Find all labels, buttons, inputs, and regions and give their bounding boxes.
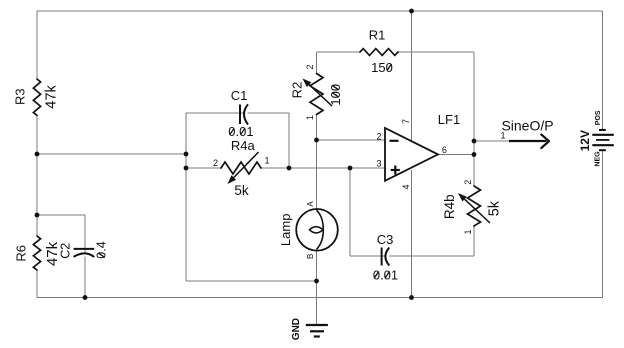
wire C1 box left: [185, 113, 187, 281]
wire R4a right to pin3: [261, 167, 385, 169]
svg-text:A: A: [306, 201, 315, 207]
node inverting: [314, 138, 319, 143]
pin 4 op-amp: [401, 184, 411, 189]
svg-text:POS: POS: [595, 110, 602, 125]
svg-text:4: 4: [401, 184, 411, 189]
value 5k: [487, 200, 503, 216]
label R4a: [231, 138, 256, 153]
node R3-mid: [35, 152, 40, 157]
svg-text:R3: R3: [13, 88, 28, 105]
pin 1 R4a: [264, 156, 269, 166]
wire C1 box right: [288, 113, 290, 168]
label C1: [231, 88, 248, 103]
lamp: [296, 209, 338, 251]
svg-text:6: 6: [442, 145, 447, 155]
wire C1 box top right: [248, 112, 290, 114]
wire gnd drop: [316, 281, 318, 325]
pin B lamp: [306, 254, 315, 259]
arrow R2: [309, 85, 332, 106]
capacitor C1: [239, 105, 241, 125]
battery 12V: [599, 129, 606, 131]
pin 1 output: [500, 131, 505, 141]
svg-text:C2: C2: [59, 243, 73, 259]
wire C1 box top left: [186, 112, 244, 114]
label NEG: [594, 151, 601, 167]
svg-text:2: 2: [305, 64, 315, 69]
wire feedback down: [473, 52, 475, 140]
resistor R6: [33, 236, 40, 270]
wire lamp upper: [316, 140, 318, 210]
node mid-left box: [184, 152, 189, 157]
svg-text:5k: 5k: [234, 183, 249, 198]
svg-text:2: 2: [463, 180, 473, 185]
label R2: [290, 82, 305, 99]
label R4b: [442, 194, 457, 219]
wire left rail middle: [36, 116, 38, 237]
op-amp U1 LF1: [385, 128, 438, 181]
wire C2 lower: [84, 257, 86, 298]
pin 2 op-amp: [376, 132, 381, 142]
svg-text:R1: R1: [369, 28, 386, 43]
resistor R1: [360, 49, 398, 56]
wire R2 bottom: [316, 115, 318, 141]
label POS: [595, 110, 602, 125]
svg-text:5k: 5k: [487, 200, 503, 216]
value 47k: [44, 241, 61, 266]
node bottom supply: [409, 295, 414, 300]
svg-text:2: 2: [376, 132, 381, 142]
label R1: [369, 28, 386, 43]
label Lamp: [278, 214, 293, 247]
node feedback-output: [472, 139, 477, 144]
node C3 tap: [348, 166, 353, 171]
label C3: [377, 232, 394, 247]
svg-text:GND: GND: [291, 318, 302, 340]
svg-text:SineO/P: SineO/P: [501, 118, 553, 134]
resistor R3: [33, 79, 40, 116]
pin 2 R4b: [463, 180, 473, 185]
wire box bottom: [186, 280, 317, 282]
value 0.01: [373, 267, 398, 282]
svg-text:1: 1: [500, 131, 505, 141]
svg-text:R2: R2: [290, 82, 305, 99]
label R3: [13, 88, 28, 105]
wire R1 right: [398, 51, 474, 53]
wire left rail lower: [36, 270, 38, 298]
value 5k: [234, 183, 249, 198]
svg-text:1: 1: [463, 229, 473, 234]
node R4a right: [287, 166, 292, 171]
ground: [306, 324, 328, 326]
svg-text:47k: 47k: [43, 85, 59, 109]
wire pin2: [317, 139, 386, 141]
potentiometer R4a: [221, 162, 261, 174]
output arrow SineO/P: [509, 140, 547, 142]
pin 2 R4a: [213, 158, 218, 168]
wire bottom rail: [37, 297, 603, 299]
node lamp bottom: [314, 279, 319, 284]
label GND: [291, 318, 302, 340]
capacitor C2: [74, 248, 95, 250]
potentiometer R4b: [468, 186, 481, 226]
arrow R4a: [234, 152, 259, 178]
svg-text:NEG: NEG: [594, 151, 601, 167]
svg-text:3: 3: [376, 159, 381, 169]
label LF1: [438, 112, 460, 127]
value 47k: [43, 85, 59, 109]
wire C3 right: [389, 255, 474, 257]
label SineO/P: [501, 118, 553, 134]
wire lamp lower: [316, 250, 318, 282]
svg-text:7: 7: [401, 119, 411, 124]
node C2 bottom: [83, 295, 88, 300]
wire mid-left: [37, 153, 186, 155]
wire pin7 supply: [411, 11, 413, 142]
pin 1 R4b: [463, 229, 473, 234]
svg-text:1: 1: [305, 115, 315, 120]
node output: [472, 152, 477, 157]
wire R4b bottom: [473, 226, 475, 256]
wire C3 left: [350, 255, 385, 257]
svg-text:2: 2: [213, 158, 218, 168]
svg-text:0.4: 0.4: [95, 241, 109, 258]
svg-text:C3: C3: [377, 232, 394, 247]
pin 3 op-amp: [376, 159, 381, 169]
wire C3 up: [349, 168, 351, 256]
value 100: [328, 84, 343, 106]
svg-text:R6: R6: [14, 245, 29, 262]
svg-text:1: 1: [264, 156, 269, 166]
value 150: [371, 60, 393, 75]
wire sine out: [474, 140, 509, 142]
wire output: [438, 154, 474, 156]
svg-text:Lamp: Lamp: [278, 214, 293, 247]
label R6: [14, 245, 29, 262]
wire pin4 supply: [411, 170, 413, 298]
potentiometer R2: [310, 74, 323, 115]
svg-text:R4a: R4a: [231, 138, 256, 153]
wire R4a left: [186, 167, 221, 169]
wire right rail upper: [602, 11, 604, 130]
svg-text:12V: 12V: [578, 130, 592, 151]
node top supply: [409, 9, 414, 14]
wire R4b top: [473, 155, 475, 187]
arrow R4b: [465, 199, 490, 223]
wire R2 top: [316, 52, 318, 74]
svg-text:LF1: LF1: [438, 112, 460, 127]
node R6 top: [35, 213, 40, 218]
wire left rail upper: [36, 11, 38, 79]
svg-text:R4b: R4b: [442, 194, 457, 219]
wire right rail lower: [602, 150, 604, 297]
capacitor C3: [381, 248, 383, 266]
pin 2 R2: [305, 64, 315, 69]
node R4a left: [184, 166, 189, 171]
wire top rail: [37, 10, 603, 12]
svg-text:B: B: [306, 254, 315, 259]
wire R6-C2 top: [37, 214, 85, 216]
value 0.4: [95, 241, 109, 258]
label C2: [59, 243, 73, 259]
svg-text:C1: C1: [231, 88, 248, 103]
wire R1 left: [317, 51, 361, 53]
pin 1 R2: [305, 115, 315, 120]
pin 6 op-amp: [442, 145, 447, 155]
label 12V: [578, 130, 592, 151]
pin A lamp: [306, 201, 315, 207]
value 0.01: [228, 124, 253, 139]
wire C2 upper: [84, 215, 86, 253]
pin 7 op-amp: [401, 119, 411, 124]
wire output node up: [473, 140, 475, 155]
